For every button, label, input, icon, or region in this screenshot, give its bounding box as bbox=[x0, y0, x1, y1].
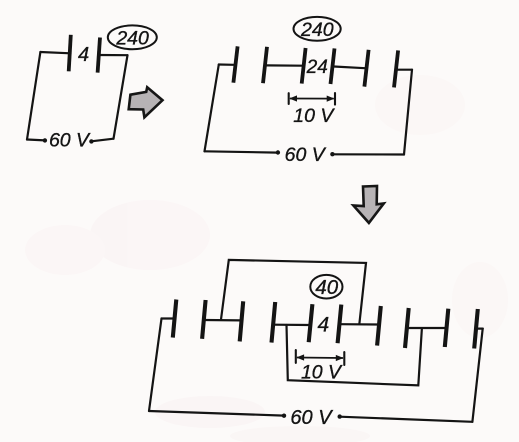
wire: circuit3 bottom-left segment bbox=[149, 411, 284, 416]
capacitor C1 right plate bbox=[98, 38, 100, 73]
capacitor C2a right plate bbox=[263, 47, 267, 83]
wire: circuit1 right side bbox=[114, 55, 128, 139]
capacitor C3b left plate bbox=[240, 301, 244, 341]
dimension annotation 10 V circuit2: left tick bbox=[288, 93, 290, 104]
wire: circuit1 bottom-left segment bbox=[27, 138, 45, 141]
dimension annotation 10 V circuit2: double arrow line bbox=[290, 98, 334, 100]
wire: circuit2 top-right corner segment bbox=[397, 69, 412, 71]
junction dot circuit1 right bbox=[89, 139, 93, 143]
svg-text:10 V: 10 V bbox=[301, 362, 343, 384]
wire: circuit1 left side bbox=[27, 52, 40, 140]
oval charge label 240 circuit1 bbox=[108, 25, 157, 49]
block arrow right (transformation) bbox=[129, 87, 163, 117]
junction dot circuit2 right bbox=[330, 152, 334, 156]
wire: node3 (C3c-C3d) bbox=[341, 323, 379, 325]
wire: circuit2 right side bbox=[404, 70, 412, 155]
wire: node between C2a and C2b bbox=[266, 64, 302, 66]
wire: node4 (C3d-C3e) bbox=[408, 327, 446, 329]
svg-text:4: 4 bbox=[318, 314, 330, 337]
block arrow down (transformation) bbox=[353, 186, 383, 223]
capacitor C3e left plate bbox=[445, 309, 449, 347]
oval charge label 240 circuit2 bbox=[294, 17, 341, 41]
svg-text:240: 240 bbox=[300, 19, 334, 41]
capacitor C3a right plate bbox=[202, 300, 206, 339]
dimension annotation 10 V circuit3: right tick bbox=[343, 352, 345, 365]
capacitor C3b right plate bbox=[272, 302, 276, 343]
svg-text:60 V: 60 V bbox=[49, 130, 91, 152]
svg-text:24: 24 bbox=[306, 57, 328, 78]
wire: circuit2 bottom-left segment bbox=[205, 151, 278, 152]
capacitor C3d left plate bbox=[377, 306, 381, 346]
capacitor C2b (24) left plate bbox=[302, 48, 306, 84]
dimension annotation 10 V circuit3: left tick bbox=[295, 350, 297, 363]
capacitor C3e right plate bbox=[474, 309, 478, 349]
dimension annotation 10 V circuit2: right tick bbox=[334, 93, 336, 105]
dimension annotation 10 V circuit3: double arrow line bbox=[297, 357, 343, 360]
svg-text:10 V: 10 V bbox=[293, 105, 335, 127]
svg-text:40: 40 bbox=[315, 276, 338, 299]
wire: circuit1 top-left segment bbox=[40, 52, 70, 53]
capacitor C3c (4) left plate bbox=[309, 304, 313, 342]
wire: circuit2 top-left corner segment bbox=[219, 63, 234, 66]
wire: lower bridge (parallel path) bbox=[287, 325, 422, 385]
wire: circuit1 bottom-right segment bbox=[91, 139, 113, 142]
capacitor C3c (4) right plate bbox=[338, 305, 342, 344]
svg-text:60 V: 60 V bbox=[285, 144, 327, 166]
wire: node between C2b and C2c bbox=[334, 67, 365, 69]
capacitor C2a left plate bbox=[233, 46, 237, 82]
wire: circuit1 top-right segment bbox=[99, 54, 128, 56]
wire: circuit3 outer-right stub bbox=[477, 328, 483, 330]
svg-text:240: 240 bbox=[115, 27, 149, 49]
wire: circuit3 right side bbox=[472, 329, 482, 422]
svg-text:4: 4 bbox=[78, 44, 89, 66]
wire: circuit3 bottom-right segment bbox=[340, 417, 473, 422]
wire: upper bridge (parallel path) bbox=[221, 260, 366, 324]
junction dot circuit1 left bbox=[43, 138, 47, 142]
wire: node1 (C3a-C3b) bbox=[205, 319, 241, 322]
capacitor C3a left plate bbox=[173, 300, 177, 338]
wire: node2 (C3b-C3c) bbox=[275, 324, 310, 326]
wire: circuit2 left side bbox=[205, 65, 219, 152]
wire: circuit3 outer-left stub bbox=[162, 317, 174, 319]
svg-text:60 V: 60 V bbox=[290, 407, 333, 429]
capacitor C1 value 4, left plate bbox=[69, 35, 71, 72]
junction dot circuit3 right bbox=[338, 414, 342, 418]
wire: circuit3 left side bbox=[149, 319, 162, 412]
junction dot circuit2 left bbox=[276, 150, 280, 154]
oval charge label 40 circuit3 bbox=[310, 275, 342, 299]
wire: circuit2 bottom-right segment bbox=[332, 153, 404, 155]
capacitor C2b (24) right plate bbox=[331, 48, 335, 84]
capacitor C2c right plate bbox=[394, 50, 398, 87]
junction dot circuit3 left bbox=[282, 414, 286, 418]
capacitor C3d right plate bbox=[405, 308, 409, 348]
capacitor C2c left plate bbox=[364, 50, 368, 87]
